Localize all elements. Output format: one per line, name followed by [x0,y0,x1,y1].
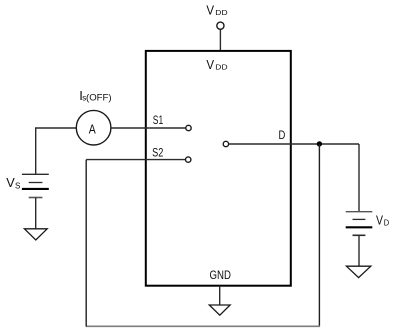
wire bottom loop: junction down [318,144,320,326]
svg-text:D: D [279,130,286,142]
wire VD battery to ground [358,235,360,266]
wire S2 [86,159,185,161]
svg-text:V: V [206,3,214,18]
wire VDD terminal to box top [219,29,221,50]
svg-text:(OFF): (OFF) [86,92,112,103]
svg-text:GND: GND [210,268,232,282]
IC body U1 [146,51,291,286]
wire D (pole to VD branch) [229,143,359,145]
wire bottom loop: up to S2 [85,160,87,327]
wire GND pin down [219,286,221,305]
junction node D [317,141,322,146]
svg-text:A: A [89,122,96,137]
wire D branch down to VD battery [358,144,360,212]
terminal VDD [217,22,224,29]
wire ammeter to S1 [111,127,185,129]
battery VD [346,212,373,236]
svg-text:DD: DD [215,8,228,17]
wire VS battery to ground [35,198,37,229]
svg-text:S: S [15,182,20,191]
wire VS to ammeter [36,128,76,174]
terminal S2 [186,157,191,162]
ground (VS) [24,229,47,240]
svg-text:V: V [206,57,214,72]
svg-text:V: V [6,175,15,190]
terminal S1 [186,125,191,130]
ground (VD) [346,266,370,277]
svg-text:S1: S1 [153,113,164,127]
svg-text:DD: DD [215,63,228,72]
wire bottom loop: along bottom [86,325,320,327]
battery VS [22,174,49,197]
svg-text:D: D [384,219,390,228]
ammeter A1 [76,110,111,145]
ground (GND pin) [209,305,230,315]
svg-text:S2: S2 [152,146,163,160]
terminal pole (drain side of switch) [223,141,228,146]
svg-text:V: V [376,213,383,228]
